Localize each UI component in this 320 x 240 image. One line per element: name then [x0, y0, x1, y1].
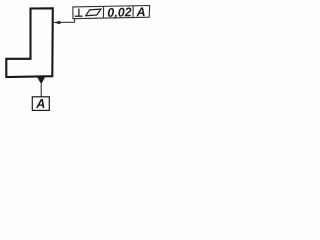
perpendicularity symbol	[75, 9, 83, 17]
part outline (L-shaped workpiece, thick lines)	[6, 8, 53, 77]
flatness symbol (parallelogram)	[86, 9, 101, 16]
frame divider 2	[132, 6, 134, 18]
datum box	[32, 97, 49, 111]
svg-text:0,02: 0,02	[107, 5, 132, 20]
svg-text:A: A	[35, 97, 45, 111]
wire: leader line from frame to part right edge	[54, 19, 75, 23]
datum triangle (filled, base on part bottom edge)	[37, 77, 45, 84]
svg-text:A: A	[135, 5, 145, 19]
feature control frame outer box	[73, 6, 150, 19]
leader arrowhead	[53, 21, 60, 25]
wire: datum stem	[40, 84, 42, 97]
frame divider 1	[102, 6, 104, 18]
